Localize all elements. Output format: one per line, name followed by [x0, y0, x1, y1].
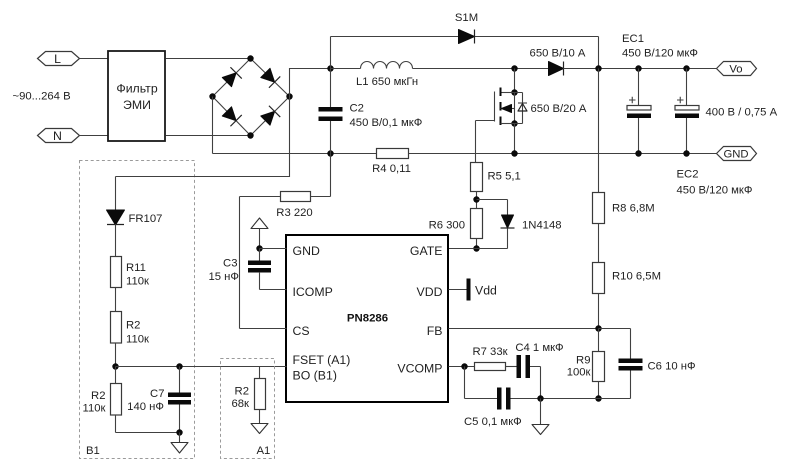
- svg-text:ЭМИ: ЭМИ: [123, 98, 151, 112]
- mosfet gate bar: [494, 92, 496, 122]
- wire filter to bridge bottom (N): [166, 135, 251, 137]
- wire gate lead: [476, 121, 495, 163]
- node R5/R6 junction: [473, 196, 479, 202]
- svg-text:100к: 100к: [567, 367, 591, 379]
- bridge diode bottom-right: [260, 106, 281, 127]
- svg-text:R4 0,11: R4 0,11: [372, 163, 411, 175]
- svg-text:L1 650 мкГн: L1 650 мкГн: [356, 76, 418, 88]
- wire snubber top rail: [331, 36, 599, 38]
- dotted block B1: [80, 161, 195, 459]
- transistor Q1 MOSFET: [476, 69, 587, 163]
- node VCOMP: [461, 363, 467, 369]
- capacitor C5: [464, 388, 631, 429]
- bridge rectifier VD1: [209, 55, 292, 138]
- svg-text:FR107: FR107: [129, 213, 163, 225]
- capacitor C7: [127, 367, 191, 433]
- svg-text:EC1: EC1: [622, 33, 644, 45]
- diode VD output 650V/10A: [530, 48, 586, 76]
- ground B1: [171, 433, 188, 454]
- svg-text:C5 0,1 мкФ: C5 0,1 мкФ: [464, 416, 522, 428]
- svg-text:450 В/120 мкФ: 450 В/120 мкФ: [677, 185, 753, 197]
- wire VCOMP down to C5: [465, 367, 498, 399]
- svg-text:R2: R2: [91, 390, 105, 402]
- node bridge right: [286, 93, 292, 99]
- node GATE junction: [473, 245, 479, 251]
- wire R11 to R2: [115, 288, 117, 312]
- capacitor EC1: [622, 33, 698, 154]
- capacitor C4: [515, 342, 563, 399]
- node EC2 top: [683, 65, 689, 71]
- node C7 top: [176, 363, 182, 369]
- svg-text:400 В / 0,75 А: 400 В / 0,75 А: [706, 107, 778, 119]
- node source on rail: [511, 150, 517, 156]
- wire R2 to BO node: [115, 343, 117, 367]
- svg-text:FB: FB: [427, 324, 443, 338]
- power bar Vdd: [467, 279, 498, 301]
- wire CS pin net: [240, 197, 287, 329]
- capacitor EC2: [675, 69, 752, 197]
- svg-text:R3 220: R3 220: [276, 207, 312, 219]
- diode 1N4148: [477, 200, 562, 249]
- svg-text:CS: CS: [293, 324, 310, 338]
- svg-text:PN8286: PN8286: [347, 313, 388, 325]
- svg-text:110к: 110к: [83, 403, 106, 415]
- svg-text:R2: R2: [235, 386, 249, 398]
- svg-text:C2: C2: [350, 103, 364, 115]
- wire drain lead: [514, 69, 516, 93]
- wire R2 lower to ground run: [116, 415, 180, 433]
- svg-text:VCOMP: VCOMP: [397, 362, 442, 376]
- svg-text:C7: C7: [150, 388, 164, 400]
- node GND pin / C3: [256, 245, 262, 251]
- resistor R8: [593, 193, 655, 224]
- terminal N: [38, 129, 80, 144]
- wire FB pin to FB node: [449, 328, 599, 330]
- node C5/C4 ground junction: [537, 395, 543, 401]
- common arrow at GND pin: [251, 218, 268, 249]
- inductor L1: [356, 62, 418, 89]
- wire output diode to Vo: [564, 68, 717, 70]
- capacitor C6: [599, 359, 696, 399]
- svg-text:B1: B1: [86, 445, 100, 457]
- svg-text:140 нФ: 140 нФ: [127, 401, 164, 413]
- svg-text:GND: GND: [293, 244, 320, 258]
- node C7 bottom: [176, 429, 182, 435]
- node EC1 top: [635, 65, 641, 71]
- body diode of Q1: [515, 93, 523, 124]
- resistor R5: [471, 163, 521, 192]
- wire minus rail right segment: [409, 153, 717, 155]
- resistor R7: [472, 346, 507, 371]
- node bridge left: [209, 93, 215, 99]
- node mosfet source: [511, 120, 517, 126]
- resistor R9: [567, 329, 605, 399]
- svg-text:L: L: [54, 52, 61, 66]
- EMI filter U-filter: [108, 51, 165, 141]
- svg-text:Vo: Vo: [729, 64, 742, 76]
- node DC bus top of C2: [327, 65, 333, 71]
- wire minus rail left segment: [213, 153, 377, 155]
- node R9 bottom: [595, 395, 601, 401]
- ground A1: [251, 410, 268, 434]
- svg-text:1N4148: 1N4148: [522, 220, 562, 232]
- svg-text:FSET (A1): FSET (A1): [293, 353, 351, 367]
- wire filter to bridge top (L): [166, 58, 251, 60]
- svg-text:Vdd: Vdd: [475, 284, 497, 298]
- wire R8 sense string from Vo rail: [598, 69, 600, 193]
- wire DC bus to inductor: [331, 68, 361, 70]
- wire VDD pin stub: [449, 289, 467, 291]
- svg-text:110к: 110к: [126, 276, 149, 288]
- mosfet body connection with source arrow: [501, 108, 515, 110]
- svg-text:650 В/20 А: 650 В/20 А: [531, 103, 587, 115]
- wire R10 to FB node: [598, 294, 600, 329]
- wire R7 to C4: [506, 366, 517, 368]
- wire bridge left node down to minus rail: [212, 97, 214, 154]
- node EC1 bottom: [635, 150, 641, 156]
- capacitor C3: [208, 249, 286, 290]
- bridge diode top-left: [221, 67, 242, 88]
- wire VCOMP pin stub: [449, 366, 475, 368]
- node C2 bottom on rail: [327, 150, 333, 156]
- wire GATE pin stub: [449, 248, 477, 250]
- resistor R4: [372, 149, 411, 176]
- capacitor C2: [319, 69, 423, 154]
- wire GND pin stub: [260, 248, 287, 250]
- resistor R6: [429, 209, 483, 239]
- wire BO/FSET line to IC: [116, 366, 287, 368]
- wire FR107 anode lead: [115, 177, 117, 211]
- svg-text:R5 5,1: R5 5,1: [488, 171, 521, 183]
- svg-text:110к: 110к: [126, 334, 149, 346]
- wire N terminal to EMI filter: [80, 135, 109, 137]
- svg-text:VDD: VDD: [417, 285, 443, 299]
- wire riser to snubber top rail: [330, 37, 332, 69]
- terminal GND: [717, 147, 757, 161]
- svg-text:R11: R11: [126, 262, 146, 274]
- svg-text:GND: GND: [723, 149, 748, 161]
- svg-text:Фильтр: Фильтр: [116, 82, 157, 96]
- svg-text:R10 6,5M: R10 6,5M: [612, 271, 661, 283]
- svg-text:GATE: GATE: [410, 244, 443, 258]
- svg-text:R2: R2: [126, 320, 140, 332]
- svg-text:A1: A1: [257, 445, 271, 457]
- svg-text:BO (B1): BO (B1): [293, 369, 337, 383]
- svg-text:S1M: S1M: [455, 12, 478, 24]
- svg-text:650 В/10 А: 650 В/10 А: [530, 48, 586, 60]
- resistor R11: [111, 257, 150, 288]
- wire inductor to output diode: [413, 68, 549, 70]
- mosfet channel segments: [500, 88, 502, 126]
- svg-text:R7 33к: R7 33к: [472, 346, 507, 358]
- wire FR107 to R11: [115, 225, 117, 257]
- bridge diode bottom-left: [221, 106, 242, 127]
- svg-text:450 В/120 мкФ: 450 В/120 мкФ: [622, 48, 698, 60]
- svg-text:N: N: [53, 129, 62, 143]
- svg-text:ICOMP: ICOMP: [293, 285, 333, 299]
- resistor R2 lower: [83, 367, 122, 416]
- ground VCOMP network: [532, 399, 549, 435]
- node snubber return on Vo rail: [595, 65, 601, 71]
- node FB: [595, 325, 601, 331]
- wire snubber rail down to drain node: [598, 37, 600, 69]
- node bridge top: [247, 55, 253, 61]
- wire B1 feed from bridge right node: [116, 97, 290, 177]
- wire R6 to GATE node: [476, 239, 478, 250]
- wire R8 to R10: [598, 224, 600, 263]
- diode FR107: [107, 210, 163, 225]
- svg-text:450 В/0,1 мкФ: 450 В/0,1 мкФ: [350, 117, 423, 129]
- svg-text:R8 6,8M: R8 6,8M: [612, 203, 655, 215]
- wire bridge right node riser to DC bus: [290, 69, 331, 97]
- svg-text:15 нФ: 15 нФ: [208, 271, 239, 283]
- svg-text:C3: C3: [223, 258, 237, 270]
- resistor R2 (A1 68k): [231, 367, 265, 411]
- svg-text:~90...264 В: ~90...264 В: [13, 91, 71, 103]
- wire FB node to C6: [599, 329, 631, 359]
- wire source to rail: [514, 124, 516, 154]
- node BO divider: [112, 363, 118, 369]
- node mosfet drain: [511, 89, 517, 95]
- wire R5 to R6: [476, 192, 478, 209]
- wire R3 to sense rail node: [311, 154, 331, 197]
- terminal Vo: [717, 62, 757, 76]
- op-amp controller U1 PN8286: [286, 235, 448, 402]
- resistor R3: [276, 192, 312, 220]
- wire L terminal to EMI filter: [80, 58, 109, 60]
- node bridge bottom: [247, 132, 253, 138]
- svg-text:C6 10 нФ: C6 10 нФ: [648, 361, 696, 373]
- node EC2 bottom: [683, 150, 689, 156]
- resistor R10: [593, 263, 661, 294]
- node drain junction: [511, 65, 517, 71]
- svg-text:R9: R9: [576, 355, 590, 367]
- diode S1M: [455, 12, 478, 44]
- svg-text:C4 1 мкФ: C4 1 мкФ: [515, 342, 563, 354]
- terminal L: [38, 52, 80, 67]
- svg-text:68к: 68к: [231, 398, 249, 410]
- resistor R2 upper: [111, 312, 150, 346]
- svg-text:R6 300: R6 300: [429, 220, 465, 232]
- svg-text:EC2: EC2: [677, 169, 699, 181]
- bridge diode top-right: [260, 67, 281, 88]
- dotted block A1: [221, 359, 275, 459]
